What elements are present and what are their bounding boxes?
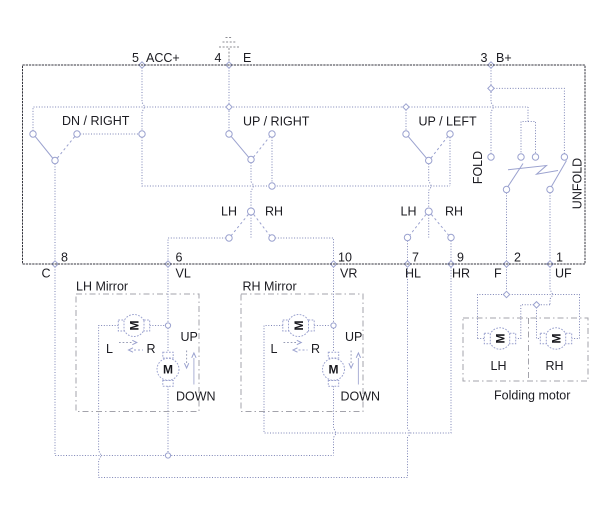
svg-text:RH: RH	[445, 205, 463, 219]
switch DN/RIGHT blade dashed	[57, 137, 74, 158]
junction C bus to VL	[165, 453, 170, 458]
svg-text:9: 9	[457, 251, 464, 265]
svg-text:LH: LH	[491, 359, 507, 373]
svg-text:C: C	[42, 267, 51, 281]
folding motor RH M6	[540, 328, 571, 350]
switch UP/LEFT contact right	[447, 131, 453, 137]
node UF junction on bus B	[533, 302, 539, 308]
svg-text:HL: HL	[405, 267, 421, 281]
switch UNFOLD contact B+	[561, 154, 567, 160]
svg-text:M: M	[493, 334, 507, 344]
svg-text:Folding motor: Folding motor	[494, 389, 570, 403]
folding motor LH M5	[484, 328, 515, 350]
wire terminal 10 VR down through RH mirror box (hop over y433 bus)	[334, 264, 336, 456]
svg-text:VR: VR	[340, 267, 357, 281]
svg-text:B+: B+	[496, 51, 512, 65]
switch DN/RIGHT contact on ACC wire	[139, 131, 145, 137]
svg-text:DOWN: DOWN	[341, 390, 381, 404]
svg-text:M: M	[292, 321, 306, 331]
wire selector2 right contact to terminal 9	[450, 241, 452, 264]
junction contact UP/RIGHT on ACC bus	[269, 183, 275, 189]
switch FOLD-UNFOLD mechanical link	[508, 166, 558, 175]
svg-text:RH: RH	[546, 359, 564, 373]
svg-text:M: M	[549, 334, 563, 344]
wire UP/LEFT left contact up to E-bus	[405, 107, 407, 131]
wire terminal 1 UF down (hop over bus A)	[550, 264, 552, 305]
switch UP/LEFT common contact	[426, 157, 432, 163]
svg-text:E: E	[243, 51, 251, 65]
svg-text:7: 7	[412, 251, 419, 265]
wire B branch to RH fold motor left tab	[537, 305, 541, 339]
wire selector2 left contact to terminal 7	[407, 241, 409, 264]
terminal 10	[330, 261, 336, 267]
wire LH horiz motor left side down to y477 bus (hop over C bus)	[99, 326, 119, 478]
svg-text:RH: RH	[265, 205, 283, 219]
wire terminal 8 C down and bottom bus to VR	[55, 264, 334, 456]
svg-text:UP / LEFT: UP / LEFT	[419, 115, 477, 129]
wire UNFOLD lower contact down to terminal 1	[549, 193, 551, 264]
RH mirror horizontal motor M3	[283, 315, 314, 337]
svg-text:ACC+: ACC+	[146, 51, 180, 65]
wire UP/LEFT common down to selector2 (hop over ACC bus)	[429, 164, 431, 208]
switch DN/RIGHT contact mid	[74, 131, 80, 137]
svg-text:2: 2	[514, 251, 521, 265]
svg-text:LH Mirror: LH Mirror	[76, 280, 128, 294]
terminal 5	[139, 62, 145, 68]
svg-text:R: R	[311, 342, 320, 356]
wire bottom bus y=477 to terminal 7 HL (hop over y433 bus)	[99, 264, 410, 478]
switch UP/RIGHT contact right	[269, 131, 275, 137]
junction VR to horiz motor	[331, 323, 336, 328]
LH mirror horizontal motor M1	[118, 315, 149, 337]
switch UP/LEFT blade dashed	[431, 137, 448, 158]
terminal 9	[448, 261, 454, 267]
wire B+ branch to UNFOLD contact	[491, 88, 564, 153]
RH UP-DOWN arrows	[349, 351, 361, 385]
wire E-bus y=107	[33, 107, 528, 131]
svg-text:4: 4	[215, 51, 222, 65]
terminal 6	[165, 261, 171, 267]
svg-text:UP: UP	[345, 330, 362, 344]
LH L-R arrows	[119, 340, 143, 352]
selector2 contact LH	[404, 234, 410, 240]
svg-text:UNFOLD: UNFOLD	[570, 158, 584, 209]
junction VL to horiz motor	[165, 323, 170, 328]
RH mirror box	[241, 294, 363, 412]
selector2 dashed blade left	[410, 215, 426, 235]
svg-text:6: 6	[176, 251, 183, 265]
switch DN/RIGHT contact left	[30, 131, 36, 137]
wire selector1 right contact to terminal 10	[275, 238, 333, 264]
svg-text:UP / RIGHT: UP / RIGHT	[243, 115, 310, 129]
svg-text:DN / RIGHT: DN / RIGHT	[62, 114, 130, 128]
svg-text:1: 1	[556, 251, 563, 265]
terminal 8	[52, 261, 58, 267]
wire RH horiz motor left side down to y433 bus and to terminal 9 HR	[264, 264, 451, 433]
svg-text:DOWN: DOWN	[176, 390, 216, 404]
switch DN/RIGHT blade solid	[35, 137, 52, 158]
wire UP/LEFT right contact down to ACC bus	[449, 137, 451, 186]
wire selector2 stub	[428, 215, 430, 238]
selector1 dashed blade left	[231, 215, 248, 236]
svg-text:LH: LH	[221, 205, 237, 219]
selector1 contact RH	[269, 235, 275, 241]
ground symbol (E terminal)	[219, 38, 239, 63]
wire selector1 left contact to terminal 6	[168, 238, 226, 264]
switch UP/LEFT blade solid	[408, 137, 426, 158]
terminal 2	[503, 261, 509, 267]
terminal 4	[226, 62, 232, 68]
switch FOLD contact E	[518, 154, 524, 160]
selector2 LH-RH common contact	[425, 208, 432, 215]
LH mirror vertical motor M2	[157, 352, 179, 386]
wire terminal4-E down to bus and UP/RIGHT left contact	[228, 65, 230, 131]
selector1 LH-RH common contact	[248, 208, 255, 215]
switch UP/RIGHT common contact	[248, 156, 254, 162]
svg-text:UF: UF	[555, 267, 572, 281]
switch UP/LEFT contact left	[403, 131, 409, 137]
switch UP/RIGHT contact left	[226, 131, 232, 137]
switch UNFOLD lower contact	[547, 186, 553, 192]
wire VL junction to vertical motor	[167, 328, 169, 352]
wire VL below vertical motor to bottom bus	[167, 386, 169, 453]
selector1 contact LH	[226, 235, 232, 241]
svg-text:M: M	[163, 363, 173, 377]
svg-text:RH Mirror: RH Mirror	[243, 280, 297, 294]
wire DN/RIGHT common down to terminal 8	[54, 164, 56, 264]
wire terminal 6 VL down through LH mirror box	[167, 264, 169, 323]
wire ACC+ bus y=186	[142, 137, 450, 186]
LH UP-DOWN arrows	[184, 351, 196, 385]
RH mirror vertical motor M4	[323, 352, 345, 386]
svg-text:10: 10	[338, 251, 352, 265]
wire FOLD lower contact down to terminal 2	[506, 193, 508, 264]
wire UP/RIGHT common down to selector (hop over ACC bus)	[251, 163, 253, 208]
selector2 dashed blade right	[431, 215, 448, 235]
wire E-bus fork to FOLD/UNFOLD center contacts	[521, 107, 528, 154]
switch UNFOLD contact E	[532, 154, 538, 160]
svg-text:L: L	[106, 342, 113, 356]
svg-text:5: 5	[132, 51, 139, 65]
selector2 contact RH	[448, 234, 454, 240]
svg-text:VL: VL	[176, 267, 191, 281]
switch FOLD lower contact	[503, 186, 509, 192]
switch UP/RIGHT blade solid	[231, 137, 248, 158]
wire unfold bus B y=304.8	[516, 305, 550, 339]
svg-text:FOLD: FOLD	[471, 151, 485, 184]
wire fork right prong	[528, 122, 536, 154]
svg-text:UP: UP	[181, 330, 198, 344]
LH mirror box	[76, 294, 199, 412]
node UP/LEFT junction on E bus	[403, 104, 409, 110]
folding motor box divider	[528, 318, 530, 381]
wire RH horiz motor right tab to VR junction	[314, 325, 331, 327]
svg-text:LH: LH	[401, 205, 417, 219]
switch FOLD contact B+	[488, 154, 494, 160]
wire terminal 2 F down to fold feed	[506, 264, 508, 291]
folding motor box	[463, 318, 588, 381]
svg-text:L: L	[271, 342, 278, 356]
svg-text:R: R	[147, 342, 156, 356]
wire ACC+ terminal5 down (hop over E-bus)	[142, 65, 144, 131]
svg-text:HR: HR	[452, 267, 470, 281]
wire LH horiz motor right tab to VL junction	[150, 325, 166, 327]
node F junction on bus A	[503, 291, 509, 297]
wire selector1 stub	[250, 215, 252, 238]
switch FOLD blade	[508, 164, 524, 188]
switch UNFOLD blade	[551, 161, 567, 188]
wire fold feed bus A y=294.5	[478, 295, 580, 339]
RH L-R arrows	[284, 340, 308, 352]
svg-text:M: M	[329, 363, 339, 377]
wire UP/RIGHT right contact down to ACC bus	[271, 137, 273, 183]
svg-text:F: F	[494, 267, 502, 281]
svg-text:3: 3	[481, 51, 488, 65]
svg-text:8: 8	[61, 251, 68, 265]
wire B+ terminal3 down to FOLD contact (hop over E-bus)	[491, 65, 493, 154]
node E junction on bus	[226, 104, 232, 110]
terminal 1	[547, 261, 553, 267]
switch DN/RIGHT common contact	[52, 157, 58, 163]
terminal 7	[404, 261, 410, 267]
svg-text:M: M	[127, 321, 141, 331]
wire DN/RIGHT link to ACC line	[80, 133, 139, 135]
wire A left leg into LH fold motor	[478, 338, 485, 340]
switch UP/RIGHT blade dashed	[253, 137, 269, 158]
node B+ branch junction	[488, 85, 494, 91]
selector1 dashed blade right	[254, 215, 270, 236]
terminal 3	[488, 62, 494, 68]
main switch box border	[23, 65, 586, 264]
